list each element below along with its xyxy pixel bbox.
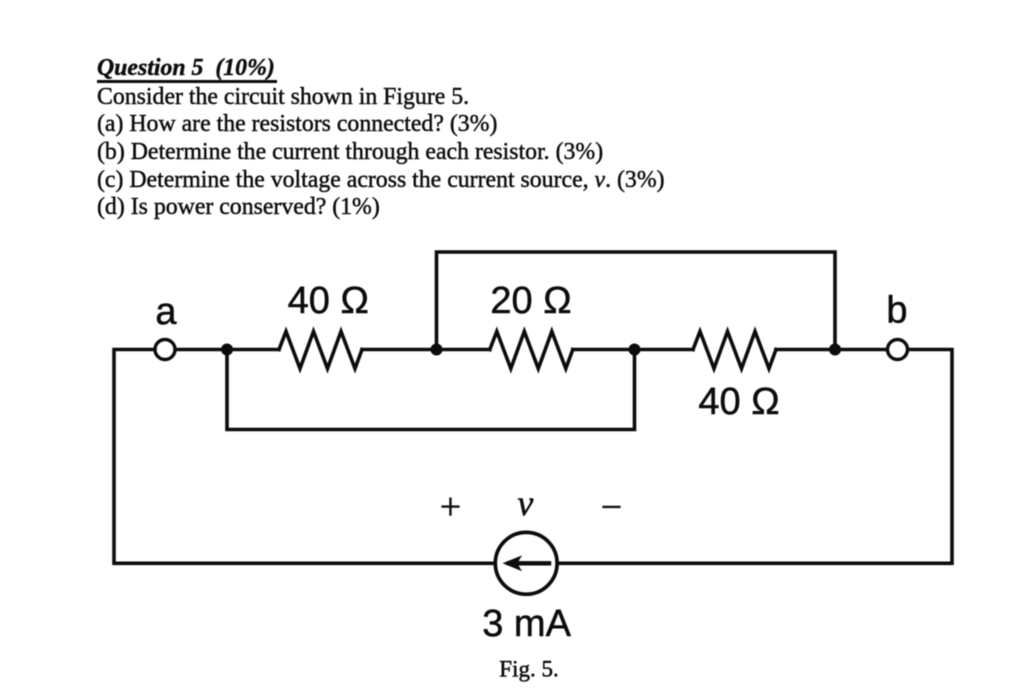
question line (d)	[97, 196, 380, 220]
terminal b	[888, 340, 908, 360]
wire junction1 to R1	[227, 348, 279, 352]
wire a to junction 1	[177, 348, 228, 352]
wire junction3 to R3	[635, 348, 694, 352]
svg-text:a: a	[155, 291, 177, 333]
lower loop wire (junction1 down, across, up to junction3)	[227, 350, 635, 430]
current source arrow shaft	[509, 561, 549, 565]
wire junction2 to R2	[437, 348, 490, 352]
wire R3 to junction 4	[776, 348, 886, 352]
current source I1 circle	[495, 532, 557, 594]
resistor R2 20 ohm	[490, 331, 573, 368]
junction node 4	[829, 344, 841, 356]
question line (b)	[97, 141, 603, 165]
heading underline	[97, 80, 277, 83]
question line 1	[97, 86, 469, 110]
svg-text:20 Ω: 20 Ω	[490, 280, 571, 322]
svg-text:−: −	[601, 486, 622, 528]
question line (c)	[97, 169, 665, 193]
wire R2 to junction 3	[573, 348, 635, 352]
svg-text:+: +	[440, 486, 461, 528]
svg-text:Fig. 5.: Fig. 5.	[499, 656, 558, 681]
wire left outer loop (node a to bottom rail left)	[114, 350, 493, 564]
svg-text:b: b	[886, 290, 907, 332]
top rail wire (junction2 up, across, down to junction4)	[437, 252, 836, 350]
svg-text:v: v	[517, 483, 533, 523]
junction node 2	[431, 344, 443, 356]
junction node 1	[221, 344, 233, 356]
wire right outer loop (node b to bottom rail right)	[560, 350, 952, 564]
svg-text:3 mA: 3 mA	[482, 603, 571, 645]
question line (a)	[97, 113, 497, 137]
wire R1 to junction 2	[362, 348, 437, 352]
resistor R3 40 ohm	[693, 331, 776, 368]
current source arrow head	[503, 555, 523, 571]
question heading	[97, 57, 275, 81]
svg-text:40 Ω: 40 Ω	[698, 381, 779, 423]
terminal a	[155, 340, 175, 360]
junction node 3	[629, 344, 641, 356]
resistor R1 40 ohm	[279, 331, 362, 368]
svg-text:40 Ω: 40 Ω	[288, 280, 369, 322]
